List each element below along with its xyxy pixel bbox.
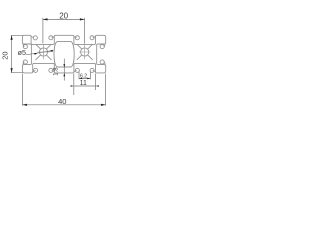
top slot1 right lip ring (49, 36, 53, 40)
arrow 11 right (96, 85, 99, 87)
arrow bottom-right (101, 104, 106, 106)
hole 2 webs (77, 44, 92, 59)
dim 1.8: line (63, 59, 65, 81)
leader phi5 (26, 51, 53, 55)
central cavity (54, 42, 74, 67)
top slot1 left lip ring (33, 36, 37, 40)
svg-text:20: 20 (59, 12, 68, 21)
dim 20 top: dimension line (43, 18, 85, 20)
arrow top-left (43, 18, 48, 20)
dim 20 top: extension lines (43, 18, 85, 44)
arrow top-right (80, 18, 85, 20)
svg-text:1.8: 1.8 (53, 67, 59, 76)
right end top lip ring (100, 45, 104, 49)
svg-text:40: 40 (58, 97, 66, 106)
bottom slot1 left lip ring (33, 68, 37, 72)
arrow left-down (11, 68, 13, 73)
svg-text:6.2: 6.2 (80, 74, 87, 80)
hole 2 crosshair (79, 45, 90, 59)
lip tails (23, 37, 105, 72)
top slot2 right lip ring (90, 36, 94, 40)
bottom slot2 left lip ring (75, 68, 79, 72)
arrow 11 left (71, 85, 74, 87)
arrow 1.8 up (63, 73, 65, 76)
dim 40 bottom: extension lines (22, 74, 105, 106)
bottom slot2 right lip ring (90, 68, 94, 72)
left end top lip ring (23, 45, 27, 49)
svg-text:11: 11 (80, 80, 87, 87)
dim 20 left: extension lines (11, 35, 23, 72)
arrow 6.2 right (87, 78, 90, 80)
right end bottom lip ring (100, 60, 104, 64)
leader arrow b (49, 50, 53, 52)
arrow 1.8 down (63, 64, 65, 67)
hole 1 circle (39, 48, 47, 56)
dim 11: extension + dimension line (74, 74, 96, 96)
hole 1 webs (36, 44, 51, 59)
hole 2 circle (81, 48, 89, 56)
leader arrow a (34, 53, 38, 55)
arrow 6.2 left (79, 78, 82, 80)
left end bottom lip ring (23, 60, 27, 64)
bottom slot1 right lip ring (49, 68, 53, 72)
dim 40 bottom: dimension line (22, 104, 105, 106)
profile outline (22, 35, 105, 73)
hole 1 crosshair (37, 45, 49, 59)
svg-text:ø5: ø5 (18, 48, 26, 57)
svg-text:20: 20 (0, 51, 9, 59)
arrow bottom-left (22, 104, 27, 106)
dim 6.2: extension + dimension line (79, 72, 90, 80)
top slot2 left lip ring (75, 36, 79, 40)
dim 20 left: dimension line (11, 35, 13, 72)
arrow left-up (11, 35, 13, 40)
